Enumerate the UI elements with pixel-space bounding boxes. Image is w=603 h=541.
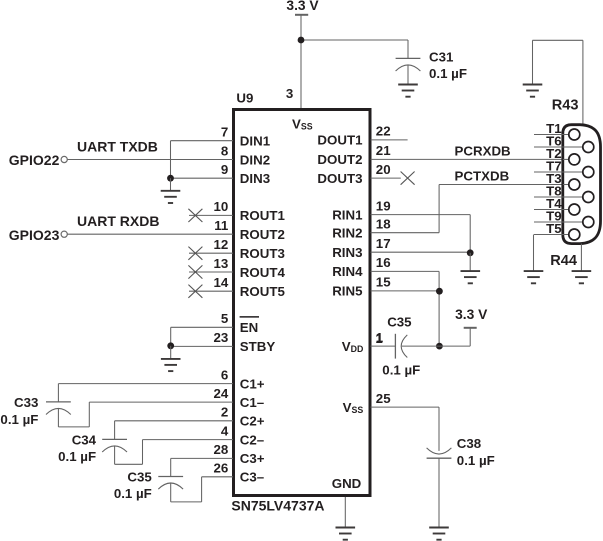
svg-text:GPIO23: GPIO23 xyxy=(9,227,60,243)
svg-text:18: 18 xyxy=(376,217,391,232)
svg-text:1: 1 xyxy=(375,331,383,346)
svg-text:11: 11 xyxy=(214,218,229,233)
svg-text:PCTXDB: PCTXDB xyxy=(455,168,510,183)
svg-text:U9: U9 xyxy=(236,91,253,106)
svg-text:C3–: C3– xyxy=(240,470,264,485)
svg-text:GND: GND xyxy=(332,476,362,491)
svg-text:RIN3: RIN3 xyxy=(332,245,362,260)
svg-text:RIN1: RIN1 xyxy=(332,207,363,222)
svg-text:12: 12 xyxy=(214,237,229,252)
svg-text:C1–: C1– xyxy=(240,395,264,410)
svg-text:0.1 µF: 0.1 µF xyxy=(457,453,495,468)
svg-text:16: 16 xyxy=(376,255,391,270)
svg-text:0.1 µF: 0.1 µF xyxy=(58,449,96,464)
svg-text:26: 26 xyxy=(214,461,229,476)
svg-text:UART RXDB: UART RXDB xyxy=(77,213,159,229)
svg-text:RIN4: RIN4 xyxy=(332,264,363,279)
svg-text:17: 17 xyxy=(376,236,391,251)
svg-text:23: 23 xyxy=(214,330,229,345)
svg-text:21: 21 xyxy=(376,143,391,158)
svg-text:ROUT1: ROUT1 xyxy=(240,208,286,223)
svg-text:10: 10 xyxy=(214,199,229,214)
svg-text:RIN5: RIN5 xyxy=(332,284,363,299)
svg-text:C34: C34 xyxy=(72,432,97,447)
svg-text:ROUT3: ROUT3 xyxy=(240,246,285,261)
svg-text:14: 14 xyxy=(214,275,229,290)
svg-text:0.1 µF: 0.1 µF xyxy=(429,66,467,81)
svg-text:C2–: C2– xyxy=(240,432,264,447)
svg-text:T5: T5 xyxy=(546,221,562,236)
svg-text:C3+: C3+ xyxy=(240,451,265,466)
svg-text:3.3 V: 3.3 V xyxy=(286,0,319,13)
svg-text:19: 19 xyxy=(376,198,391,213)
svg-text:UART TXDB: UART TXDB xyxy=(77,138,158,154)
svg-text:ROUT2: ROUT2 xyxy=(240,227,285,242)
svg-text:C35: C35 xyxy=(387,314,412,329)
svg-text:DOUT2: DOUT2 xyxy=(317,152,362,167)
svg-text:R43: R43 xyxy=(552,97,579,113)
svg-text:DIN2: DIN2 xyxy=(240,152,270,167)
svg-text:4: 4 xyxy=(221,423,229,438)
svg-text:C35: C35 xyxy=(127,470,152,485)
svg-text:ROUT5: ROUT5 xyxy=(240,284,286,299)
svg-text:0.1 µF: 0.1 µF xyxy=(114,486,152,501)
svg-text:3.3 V: 3.3 V xyxy=(455,307,488,322)
svg-text:C1+: C1+ xyxy=(240,376,265,391)
svg-text:15: 15 xyxy=(376,275,391,290)
svg-text:24: 24 xyxy=(214,386,229,401)
svg-text:RIN2: RIN2 xyxy=(332,226,362,241)
svg-text:20: 20 xyxy=(376,162,391,177)
svg-text:GPIO22: GPIO22 xyxy=(9,152,60,168)
svg-text:9: 9 xyxy=(221,162,228,177)
svg-text:DOUT3: DOUT3 xyxy=(317,171,362,186)
svg-text:ROUT4: ROUT4 xyxy=(240,265,286,280)
svg-text:PCRXDB: PCRXDB xyxy=(455,143,511,158)
svg-text:13: 13 xyxy=(214,256,229,271)
svg-text:6: 6 xyxy=(221,367,228,382)
svg-text:R44: R44 xyxy=(550,253,578,269)
svg-text:0.1 µF: 0.1 µF xyxy=(0,412,38,427)
svg-text:C38: C38 xyxy=(457,436,481,451)
svg-text:C33: C33 xyxy=(14,395,38,410)
svg-text:C31: C31 xyxy=(429,50,454,65)
svg-text:SN75LV4737A: SN75LV4737A xyxy=(231,498,324,514)
svg-text:DOUT1: DOUT1 xyxy=(317,133,363,148)
svg-text:0.1 µF: 0.1 µF xyxy=(382,363,420,378)
svg-text:28: 28 xyxy=(214,442,229,457)
svg-text:STBY: STBY xyxy=(240,339,276,354)
svg-text:DIN1: DIN1 xyxy=(240,134,271,149)
svg-text:25: 25 xyxy=(376,391,391,406)
svg-text:8: 8 xyxy=(221,143,228,158)
svg-text:7: 7 xyxy=(221,125,228,140)
svg-text:5: 5 xyxy=(221,311,229,326)
svg-text:3: 3 xyxy=(286,86,293,101)
svg-text:EN: EN xyxy=(240,320,258,335)
svg-text:22: 22 xyxy=(376,124,391,139)
svg-text:DIN3: DIN3 xyxy=(240,171,270,186)
svg-text:C2+: C2+ xyxy=(240,414,265,429)
svg-text:2: 2 xyxy=(221,405,228,420)
